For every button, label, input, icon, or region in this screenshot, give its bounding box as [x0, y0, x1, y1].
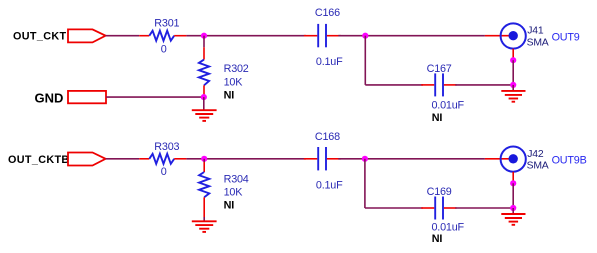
- wire R303 to C168: [186, 158, 306, 160]
- ground under R302: [192, 110, 217, 121]
- svg-text:C167: C167: [427, 63, 452, 75]
- wire to C169 junction: [512, 183, 514, 208]
- port symbol GND: [68, 91, 106, 103]
- svg-text:0.01uF: 0.01uF: [432, 222, 465, 234]
- wire C169 branch right: [455, 207, 513, 209]
- svg-text:GND: GND: [35, 91, 64, 106]
- junction node after C166: [362, 33, 368, 39]
- ground under J42: [501, 214, 525, 225]
- resistor R303: [139, 154, 186, 164]
- svg-text:OUT_CKTB: OUT_CKTB: [8, 154, 70, 166]
- svg-text:OUT9B: OUT9B: [552, 154, 587, 166]
- wire node to R302: [203, 36, 205, 60]
- junction node at C169 branch right: [510, 205, 516, 211]
- ground under J41: [501, 91, 525, 102]
- junction node after R301: [201, 33, 207, 39]
- wire J42 bottom pin: [512, 172, 514, 184]
- capacitor C167: [421, 73, 456, 96]
- port symbol OUT_CKTB: [68, 153, 106, 166]
- svg-text:OUT_CKT: OUT_CKT: [13, 30, 66, 42]
- junction node after C168: [362, 156, 368, 162]
- svg-text:NI: NI: [224, 89, 235, 101]
- svg-text:10K: 10K: [224, 187, 244, 199]
- port symbol OUT_CKT: [68, 29, 106, 42]
- wire C167 branch right: [455, 84, 513, 86]
- svg-text:NI: NI: [224, 200, 235, 212]
- junction node at C167 branch right: [510, 82, 516, 88]
- svg-text:NI: NI: [432, 112, 443, 124]
- svg-text:J41: J41: [527, 26, 544, 37]
- junction node below J42: [510, 180, 516, 186]
- svg-text:R302: R302: [224, 63, 249, 75]
- svg-text:R301: R301: [154, 17, 179, 29]
- svg-text:C169: C169: [427, 186, 452, 198]
- resistor R304: [199, 172, 209, 221]
- wire node to ground 4: [512, 208, 514, 214]
- connector J41 SMA: [501, 23, 526, 48]
- resistor R302: [199, 60, 209, 98]
- svg-text:J42: J42: [527, 149, 544, 160]
- wire C167 branch left: [365, 84, 423, 86]
- wire node to ground 2: [512, 85, 514, 91]
- capacitor C168: [304, 147, 341, 170]
- capacitor C166: [304, 24, 341, 47]
- svg-text:0.1uF: 0.1uF: [316, 56, 343, 68]
- svg-text:NI: NI: [432, 233, 443, 245]
- wire C168 to J42: [338, 158, 485, 160]
- wire OUT_CKTB to R303: [106, 158, 140, 160]
- wire to C167 junction: [512, 60, 514, 85]
- junction node at R302 bottom: [201, 94, 207, 100]
- svg-text:0.1uF: 0.1uF: [316, 179, 343, 191]
- connector J41 pin wire: [485, 35, 513, 37]
- wire node down to C169 branch: [364, 159, 366, 208]
- svg-text:OUT9: OUT9: [552, 31, 580, 43]
- svg-text:R303: R303: [154, 141, 179, 153]
- svg-text:SMA: SMA: [527, 161, 549, 172]
- wire C166 to J41: [338, 35, 485, 37]
- wire node to ground 1: [203, 97, 205, 110]
- resistor R301: [139, 31, 186, 41]
- wire C169 branch left: [365, 207, 423, 209]
- svg-text:C168: C168: [315, 131, 340, 143]
- ground under R304: [192, 221, 217, 232]
- svg-text:0: 0: [161, 43, 167, 55]
- wire R301 to C166: [186, 35, 306, 37]
- junction node below J41: [510, 57, 516, 63]
- connector J42 SMA: [501, 147, 526, 172]
- svg-text:C166: C166: [315, 7, 340, 19]
- svg-text:0: 0: [161, 166, 167, 178]
- capacitor C169: [421, 197, 456, 220]
- connector J42 pin wire: [485, 158, 513, 160]
- wire node down to C167 branch: [364, 36, 366, 85]
- svg-text:0.01uF: 0.01uF: [432, 100, 465, 112]
- wire GND to R302 bottom: [106, 96, 204, 98]
- junction node after R303: [201, 156, 207, 162]
- svg-text:SMA: SMA: [527, 38, 549, 49]
- wire node to R304: [203, 159, 205, 172]
- wire J41 bottom pin: [512, 49, 514, 61]
- svg-text:10K: 10K: [224, 76, 244, 88]
- svg-text:R304: R304: [224, 173, 249, 185]
- wire OUT_CKT to R301: [106, 35, 140, 37]
